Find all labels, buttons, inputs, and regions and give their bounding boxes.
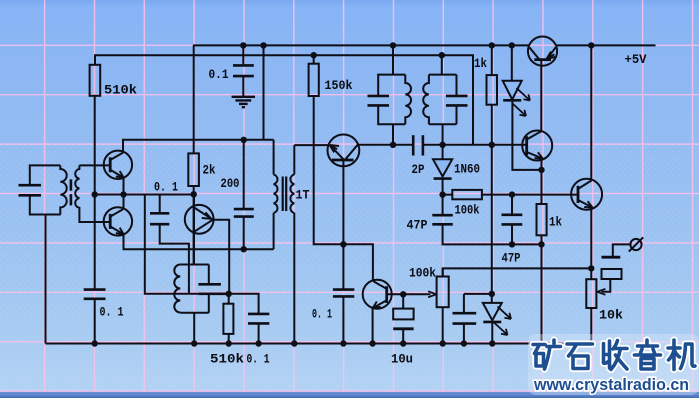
- svg-text:0. 1: 0. 1: [247, 353, 270, 367]
- transistor Q5 oscillator: [185, 194, 214, 264]
- wire ground rail bottom: [46, 343, 592, 345]
- svg-text:2P: 2P: [412, 163, 425, 177]
- IF tank2 capacitor side: [446, 75, 468, 125]
- svg-text:510k: 510k: [210, 353, 245, 367]
- node mixer collector junction: [390, 142, 396, 148]
- svg-text:0.1: 0.1: [209, 68, 229, 82]
- transistor Q1 (upper-left NPN): [104, 151, 132, 179]
- wire tank2 top to bias rail: [441, 56, 443, 75]
- capacitor 10u electrolytic: [393, 294, 413, 343]
- wire +5V rail branch to 0.1 filter cap: [242, 45, 244, 65]
- wire D2 to 0.1 decoupling cap: [229, 294, 259, 314]
- node tank1 on +5V rail: [390, 42, 396, 48]
- resistor 510k bottom: [223, 294, 233, 344]
- wire 150k bottom to mixer base node: [314, 96, 344, 244]
- wire 1T secondary top to mixer emitter: [294, 144, 328, 146]
- wire bias rail (second top rail): [95, 55, 473, 144]
- capacitor 0.1 mixer base bypass: [333, 290, 354, 344]
- resistor 1k top: [487, 45, 498, 104]
- transformer 1T secondary winding: [290, 145, 294, 343]
- svg-text:47P: 47P: [407, 219, 428, 233]
- node 2k / base-bus junction: [191, 191, 197, 197]
- resistor 150k: [309, 55, 319, 96]
- oscillator tank coil: [174, 265, 209, 313]
- potentiometer 10k wiper arrow: [597, 279, 610, 295]
- transistor Q3 (output, right): [571, 179, 602, 210]
- wire Q1 collector up and right to 1T primary top: [123, 140, 274, 153]
- LED1 indicator: [503, 45, 542, 169]
- transformer 1T core: [283, 177, 287, 212]
- wire detector node to Q7 base: [443, 144, 527, 146]
- IF tank2 coil: [423, 75, 456, 125]
- node detector input junction: [439, 142, 445, 148]
- wire tank bottom to ground rail: [193, 313, 195, 344]
- node 150k top on bias rail: [311, 52, 317, 58]
- transistor Q mixer: [328, 135, 360, 167]
- svg-text:200: 200: [221, 177, 240, 191]
- wire tank1 top to +5V rail: [392, 45, 394, 74]
- resistor 2k: [188, 153, 199, 186]
- node 47P bottom junction: [509, 241, 515, 247]
- dotted texture lower half: [0, 145, 699, 392]
- wire Q3 emitter down to pot: [590, 207, 592, 279]
- wire Q4 emitter to ground rail: [372, 308, 374, 344]
- antenna coil winding L1: [60, 165, 66, 214]
- svg-text:2k: 2k: [203, 164, 216, 178]
- svg-text:150k: 150k: [325, 79, 353, 93]
- node Q3 collector on +5V rail: [588, 42, 594, 48]
- watermark Chinese text 矿石收音机 (white outline layer): [533, 340, 695, 370]
- watermark backdrop glow: [528, 334, 699, 395]
- capacitor 47P detector filter: [432, 195, 541, 245]
- wire T1 secondary bottom to Q2 base: [79, 212, 110, 222]
- svg-text:10k: 10k: [599, 309, 624, 323]
- transistor Q6 (top PNP): [528, 37, 557, 66]
- earphone jack plug: [613, 237, 643, 257]
- wire +5V rail to 2k column: [193, 45, 195, 153]
- potentiometer 100k wiper arrow: [403, 291, 436, 297]
- wire +5V rail top (right segment): [556, 44, 656, 46]
- node D2 emitter/tank junction: [226, 291, 232, 297]
- wire Q3 collector to +5V rail: [590, 45, 592, 179]
- resistor 510k top-left: [90, 65, 101, 96]
- capacitor 0.1 top filter: [233, 65, 254, 96]
- svg-text:1k: 1k: [549, 216, 562, 230]
- capacitor 0.1 bottom-middle: [248, 314, 269, 344]
- node 1T feed on +5V rail: [260, 42, 266, 48]
- node AGC / Q7 base junction: [489, 142, 495, 148]
- svg-text:1k: 1k: [474, 57, 487, 71]
- svg-text:100k: 100k: [455, 204, 480, 218]
- node Q1e-Q2c junction: [120, 191, 126, 197]
- oscillator tank capacitor: [198, 265, 228, 313]
- LED1 emission arrows: [513, 88, 531, 116]
- wire Q4 base to bias node: [387, 293, 404, 295]
- node base-bias junction: [92, 191, 98, 197]
- LED2 emission arrows: [494, 307, 511, 336]
- wire +5V rail top (left segment): [193, 44, 529, 46]
- svg-text:0. 1: 0. 1: [312, 308, 332, 322]
- wire mixer base down: [342, 160, 344, 289]
- resistor 1k right: [537, 204, 547, 344]
- wire antenna to ground rail: [45, 215, 47, 344]
- node LED2 anode junction: [489, 291, 495, 297]
- wire 2k bottom to Q5: [193, 186, 195, 194]
- transformer 1T primary winding: [274, 140, 278, 249]
- diode 1N60: [433, 145, 452, 195]
- wire branch from base bus down to oscillator coil tap: [145, 195, 199, 294]
- transistor Q2 (lower-left NPN): [104, 207, 132, 235]
- svg-text:1T: 1T: [296, 189, 310, 203]
- potentiometer 10k body: [586, 279, 596, 343]
- wire mixer base node to Q4 collector: [343, 244, 373, 281]
- LED2 indicator: [483, 294, 502, 344]
- wire AGC column to LED2 node: [464, 293, 492, 295]
- wire tank1 bottom to mixer node: [392, 124, 394, 145]
- node mixer base bias junction: [340, 241, 346, 247]
- svg-text:+5V: +5V: [625, 53, 647, 67]
- svg-text:www.crystalradio.cn: www.crystalradio.cn: [533, 375, 689, 394]
- wire volume line to earphone node: [443, 268, 592, 276]
- wire tank2 bottom to detector node: [442, 124, 444, 145]
- wire base bus y=194.5: [95, 194, 194, 196]
- node tank2 on bias rail: [439, 52, 445, 58]
- IF tank1 capacitor side: [368, 75, 406, 125]
- svg-text:100k: 100k: [409, 267, 436, 281]
- earphone body: [602, 257, 622, 279]
- capacitor 0.1 bottom-left: [84, 290, 106, 344]
- svg-text:10u: 10u: [391, 353, 413, 367]
- capacitor 0.1 mid-left: [150, 195, 189, 294]
- wire Q2 emitter down and right to 1T primary bottom: [124, 234, 274, 249]
- node LED1 on +5V rail: [509, 42, 515, 48]
- wire +5V rail to 1T column: [263, 45, 265, 139]
- wire audio line to Q3 base: [512, 194, 578, 196]
- svg-text:510k: 510k: [104, 84, 138, 98]
- node 1k top on +5V rail: [489, 42, 495, 48]
- antenna loop tank: [19, 165, 61, 214]
- wire Q5 emitter right and down: [213, 220, 229, 294]
- ground rail junction dots: [92, 340, 496, 346]
- ground symbol: [232, 97, 255, 107]
- core of antenna transformer T1 (dashed): [70, 179, 73, 205]
- node 100k output junction: [509, 191, 515, 197]
- node detector output junction: [439, 191, 445, 197]
- svg-text:1N60: 1N60: [454, 163, 480, 177]
- capacitor 200: [234, 140, 254, 249]
- node Q7 emitter / LED1 junction: [538, 167, 544, 173]
- wire 510k bottom down left column: [94, 96, 96, 290]
- watermark Chinese text 矿石收音机 (blue layer): [533, 340, 695, 370]
- node Q4 base junction: [400, 291, 406, 297]
- wire mixer collector to IF junction: [358, 144, 393, 146]
- potentiometer 100k body: [437, 268, 449, 343]
- node 200 cap top on collector wire: [241, 137, 247, 143]
- wire T1 secondary top to Q1 base: [79, 164, 110, 166]
- svg-text:0. 1: 0. 1: [100, 306, 124, 320]
- node earphone tap junction: [588, 265, 594, 271]
- svg-text:47P: 47P: [502, 252, 521, 266]
- transistor Q7 (middle NPN): [522, 131, 552, 161]
- capacitor coupling (unlabeled): [453, 294, 477, 344]
- wire AGC column down: [491, 105, 493, 294]
- node D1 on 1T primary return: [241, 246, 247, 252]
- T1 secondary winding: [75, 165, 79, 212]
- node 1k bottom junction: [538, 241, 544, 247]
- resistor 100k horizontal: [443, 190, 512, 199]
- wire Q6 base down to Q7 collector: [540, 60, 542, 132]
- node 0.1 filter cap on +5V rail: [240, 42, 246, 48]
- capacitor 2P: [393, 135, 443, 155]
- wire Q1 emitter / Q2 collector junction: [123, 177, 125, 208]
- IF tank1 coil: [405, 75, 411, 125]
- svg-text:0. 1: 0. 1: [154, 181, 178, 195]
- capacitor 47P output filter: [502, 195, 523, 245]
- transistor Q4 (audio preamp, faces left): [363, 280, 392, 309]
- wire Q7 emitter down: [541, 158, 543, 204]
